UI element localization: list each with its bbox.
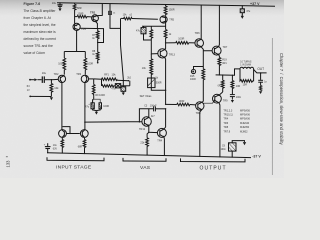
wire TR3 collector down [84, 83, 86, 130]
resistor R18 upper driver base [166, 38, 195, 45]
resistor R12 mirror right [78, 138, 86, 154]
junction dots top rail [59, 2, 242, 6]
resistor R8 feedback upper [94, 74, 129, 81]
resistor R23 zobel [231, 75, 240, 95]
resistor R1 input bias [50, 80, 59, 97]
preset RV2 driver bias [191, 67, 203, 74]
current mirror link TR10 TR11 [63, 127, 80, 134]
bracket output [181, 158, 246, 162]
wire R4 to TR5 [74, 12, 76, 23]
resistor R10 nfb shunt [92, 79, 105, 97]
wire TR2 collector down [61, 83, 63, 130]
node feedback junction [128, 80, 129, 81]
wire TR12 emitter to TR4 base [149, 126, 158, 133]
wire bias tap [142, 25, 166, 27]
resistor R24 damping [240, 69, 254, 87]
output node wire [216, 69, 240, 75]
node TR4 base [148, 132, 149, 133]
capacitor C2 nfb electrolytic [85, 96, 109, 111]
wire TR3 base [89, 78, 94, 80]
resistor R5 (TR1 base) [75, 12, 92, 18]
wire TR5 collector to pair tail [76, 31, 78, 52]
node TR7 emitter output [219, 74, 220, 75]
node OUT takeoff [260, 72, 262, 74]
transistor TR10 [59, 130, 67, 138]
transistor TR12 [139, 117, 151, 131]
preset RV1 Vbias [140, 78, 166, 98]
transistor TR6 driver upper [195, 31, 204, 48]
ground (nfb shunt) [95, 112, 98, 115]
node bias bottom [165, 90, 166, 91]
capacitor C1 input [37, 71, 51, 83]
resistor R9 feedback lower [102, 79, 116, 87]
transistor type list [223, 109, 250, 133]
wire TR7 base [203, 50, 212, 52]
resistor R11 mirror left [61, 138, 64, 153]
junction dots bottom rail [47, 152, 233, 158]
margin rule [271, 38, 273, 175]
V- rail [47, 153, 251, 158]
transistor TR8 driver lower [196, 102, 204, 115]
transistor TR11 [80, 130, 88, 138]
transistor TR1 [90, 10, 98, 21]
resistor R4 [73, 3, 82, 12]
node tail end [97, 62, 99, 64]
capacitor C10 rail decoupling right [240, 6, 251, 16]
node Cdom at VAS base [139, 121, 140, 122]
ground (rail decoupling right) [241, 16, 244, 19]
resistor R21 TR9 emitter [218, 74, 225, 95]
input arrow [27, 78, 38, 92]
wire TR1 emitter to rail [97, 4, 102, 16]
node input/R1 junction [51, 79, 52, 80]
wire to OUT [254, 70, 267, 73]
ground (bottom decoupling) [243, 142, 246, 145]
ground (output shunt) [259, 91, 262, 94]
transistor TR7 output upper [212, 46, 228, 55]
transistor TR5 [73, 23, 86, 31]
resistor R20 driver emitters [190, 69, 205, 102]
wire TR9 collector [218, 103, 221, 157]
node TR3 collector to VAS [84, 121, 85, 122]
wire divider to TR13 base [151, 40, 158, 54]
inductor L1 [240, 61, 254, 69]
wire TR6 emitter junction [201, 47, 203, 69]
capacitor C5 zobel [230, 95, 242, 100]
transistor TR4 VAS [157, 128, 166, 142]
resistor R13 TR5 emitter [164, 5, 175, 16]
capacitor C9 rail decoupling bottom [221, 141, 245, 158]
resistor R17 TR12 emitter [140, 132, 148, 155]
resistor R3 emitter TR3 [84, 52, 93, 75]
resistor R15 main line [164, 30, 172, 43]
resistor R27 tail lower [92, 43, 99, 64]
wire bias line vertical [121, 18, 124, 86]
wire TR4 emitter [163, 137, 165, 156]
resistor R14 divider top [150, 26, 153, 39]
wire input return [30, 95, 51, 97]
bracket vas [123, 158, 166, 161]
top scan shading [0, 0, 284, 16]
capacitor C6 bottom left [44, 143, 58, 153]
resistor R22 lower driver base [166, 100, 196, 106]
bracket input stage [47, 157, 104, 161]
transistor TR3 [76, 72, 88, 83]
wire TR7 collector to rail [218, 5, 221, 46]
wire TR6 collector to rail [200, 5, 202, 39]
capacitor C8 output shunt [258, 73, 267, 86]
wire TR4 collector [164, 109, 166, 129]
wire bias node [80, 28, 104, 42]
ground (input R1) [50, 97, 53, 100]
capacitor C7 rail decoupling left [52, 1, 63, 8]
wire TR5b collector [165, 22, 167, 29]
wire mirror to TR12 base [85, 121, 142, 123]
node driver tap upper [165, 42, 166, 43]
capacitor C11 bias filter [136, 26, 151, 40]
resistor R19 TR7 emitter [218, 55, 227, 75]
ground (bias decoupling) [122, 93, 125, 96]
scan grain overlay [0, 0, 284, 178]
wire to TR2 base [51, 78, 58, 80]
wire TR13 collector [165, 43, 166, 50]
transistor TR5b VAS current source [160, 16, 175, 23]
wire TR12 collector [148, 109, 150, 118]
V+ rail [57, 3, 275, 6]
wire TR8 emitter [202, 100, 204, 103]
node input return [29, 96, 31, 98]
wire TR1 collector [96, 22, 98, 29]
wire TR9 base [203, 99, 215, 103]
transistor TR13 bias generator [158, 49, 176, 58]
node tail loop [97, 42, 98, 43]
node VAS collector lower tap [165, 104, 166, 105]
resistor R26 source bias [121, 14, 158, 20]
ground (left rail cap) [58, 8, 61, 11]
node Cdom at VAS collector [165, 108, 166, 109]
resistor R16 divider lower [142, 54, 159, 80]
resistor R7 tail upper [92, 29, 99, 43]
capacitor C11 bias decoupling [111, 87, 125, 93]
wire TR13 emitter [165, 58, 166, 105]
wire pair tail rung [64, 51, 85, 53]
transistor TR2 [54, 72, 66, 83]
transistor TR9 output lower [213, 94, 229, 103]
resistor R25 output shunt [259, 86, 261, 91]
capacitor C4 feedback [115, 81, 130, 88]
wire TR8 collector to rail [200, 110, 202, 157]
ground (zobel) [231, 100, 234, 103]
resistor R2 emitter TR2 [58, 52, 65, 75]
capacitor C3 Cdom [139, 105, 165, 122]
page background [0, 0, 284, 178]
resistor R6 from rail [108, 4, 121, 29]
